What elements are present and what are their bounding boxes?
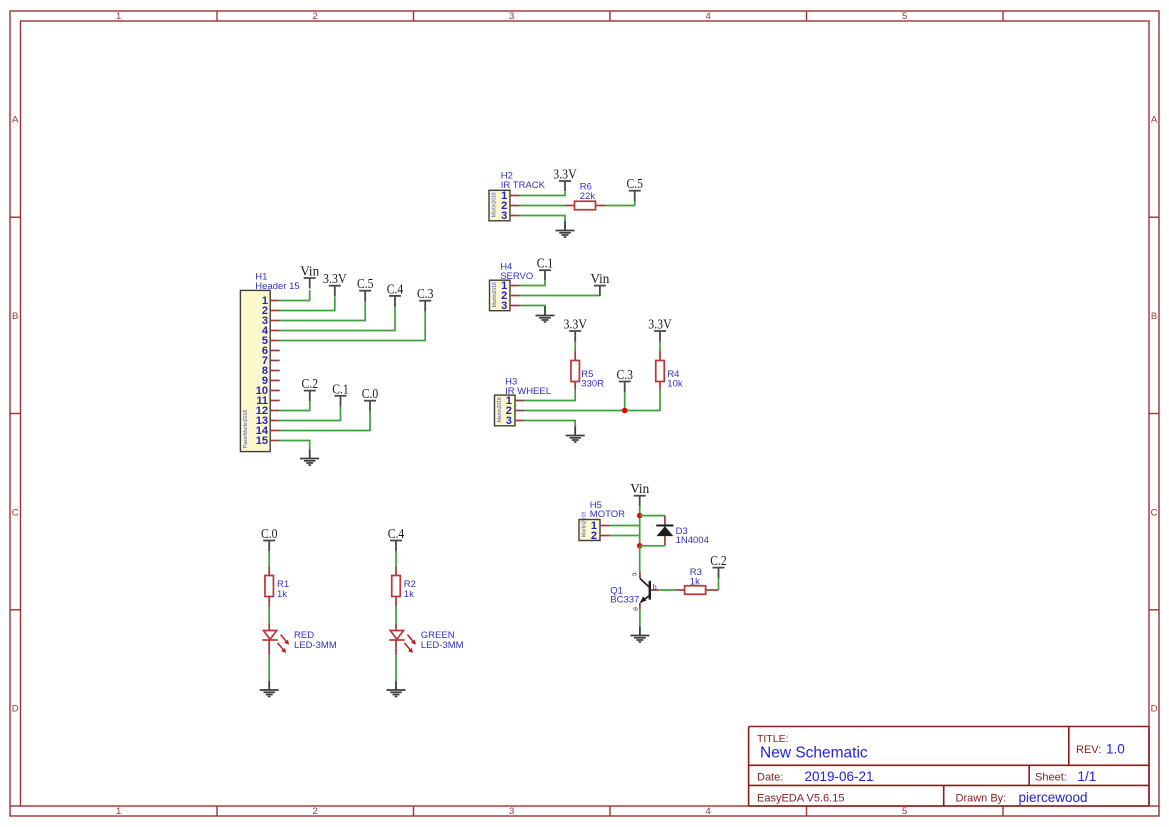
- svg-text:A: A: [12, 115, 19, 126]
- svg-text:C.5: C.5: [626, 176, 643, 191]
- wire H1 pin12 to C.2 flag: [280, 401, 310, 411]
- H5 pin 1 stub: [600, 525, 610, 527]
- resistor R1 bottom lead: [268, 597, 270, 607]
- LED LED2 bottom lead: [395, 640, 397, 655]
- wire R4 to H3 pin2: [524, 390, 660, 411]
- junction upper motor node: [637, 513, 643, 519]
- H3 pin 1 stub: [515, 400, 525, 402]
- svg-text:C.0: C.0: [261, 526, 278, 541]
- wire Vin vertical to motor node: [639, 506, 641, 546]
- connector H2 body: [489, 190, 510, 221]
- H4 pin 1 stub: [510, 285, 520, 287]
- svg-text:2: 2: [313, 11, 318, 22]
- svg-text:Martin2018: Martin2018: [491, 192, 497, 217]
- svg-text:5: 5: [902, 11, 907, 22]
- resistor R4 top lead: [659, 351, 661, 361]
- H1 pin 4 stub: [270, 330, 280, 332]
- svg-text:3: 3: [501, 210, 507, 222]
- wire H4 pin2 to Vin flag: [520, 295, 600, 297]
- LED LED2 GREEN: [389, 631, 416, 654]
- wire H3 pin3 to ground: [524, 421, 575, 427]
- svg-text:D: D: [1151, 704, 1158, 715]
- svg-text:MOTOR: MOTOR: [590, 509, 625, 520]
- H1 pin 15 stub: [270, 440, 280, 442]
- svg-text:3: 3: [509, 11, 514, 22]
- resistor R3 body: [685, 586, 706, 595]
- svg-text:B: B: [12, 311, 18, 322]
- wire H2 pin2 to R6: [520, 205, 566, 207]
- svg-text:C: C: [12, 507, 19, 518]
- svg-text:Sheet:: Sheet:: [1035, 772, 1067, 784]
- svg-text:5: 5: [902, 806, 907, 817]
- LED LED2 GREEN top lead: [395, 624, 397, 631]
- connector H5 body: [579, 520, 600, 541]
- svg-text:piercewood: piercewood: [1019, 790, 1088, 805]
- svg-text:Martin2018: Martin2018: [581, 512, 587, 537]
- wire upper node to D3 cathode: [640, 515, 665, 517]
- wire R1 to LED1: [268, 607, 270, 624]
- svg-text:2019-06-21: 2019-06-21: [805, 769, 874, 784]
- H1 pin 1 stub: [270, 300, 280, 302]
- svg-text:22k: 22k: [580, 191, 596, 202]
- wire H1 pin2 to 3.3V flag: [280, 297, 335, 311]
- wire R2 to LED2: [395, 607, 397, 624]
- ground at H3 pin3: [566, 427, 585, 443]
- junction lower motor node: [637, 543, 643, 549]
- svg-text:3.3V: 3.3V: [563, 317, 587, 332]
- connector H3 body: [495, 395, 516, 426]
- svg-text:C.2: C.2: [302, 376, 319, 391]
- net flag C.5 at H1 pin3: [357, 276, 374, 301]
- svg-text:b: b: [653, 583, 657, 592]
- svg-text:1/1: 1/1: [1078, 769, 1097, 784]
- svg-text:3: 3: [509, 806, 514, 817]
- net flag C.0 at H1 pin14: [362, 386, 379, 411]
- svg-text:C.2: C.2: [710, 553, 727, 568]
- ground at H4 pin3: [536, 307, 555, 323]
- svg-text:C.5: C.5: [357, 276, 374, 291]
- wire 3.3V to R5: [574, 342, 576, 352]
- H1 pin 12 stub: [270, 410, 280, 412]
- wire H1 pin5 to C.3 flag: [280, 311, 426, 341]
- diode D3 anode lead: [664, 536, 666, 546]
- ground at Q1 emitter: [630, 627, 649, 643]
- svg-text:C.1: C.1: [332, 381, 349, 396]
- svg-text:3.3V: 3.3V: [323, 271, 347, 286]
- ruler ticks left: [10, 217, 21, 806]
- wire H1 pin13 to C.1 flag: [280, 406, 341, 421]
- title block outline: [749, 727, 1149, 807]
- wire H1 pin3 to C.5 flag: [280, 301, 366, 321]
- svg-text:PaxerMartin2018: PaxerMartin2018: [243, 410, 249, 448]
- net flag C.1 at H4 pin1: [537, 256, 554, 281]
- svg-text:A: A: [1151, 115, 1158, 126]
- svg-text:New Schematic: New Schematic: [760, 745, 868, 762]
- svg-text:1N4004: 1N4004: [676, 535, 709, 546]
- net flag C.1 at H1 pin13: [332, 381, 349, 406]
- svg-text:10k: 10k: [667, 379, 683, 390]
- resistor R2 bottom lead: [395, 597, 397, 607]
- power flag Vin at H4 pin2: [590, 271, 609, 296]
- wire H2 pin3 to ground: [520, 216, 566, 223]
- svg-text:Vin: Vin: [300, 264, 319, 279]
- H1 pin 5 stub: [270, 340, 280, 342]
- wire R5 to H3 pin1: [524, 390, 575, 401]
- resistor R2 body: [392, 576, 401, 597]
- wire H2 pin1 to 3.3V flag: [520, 192, 566, 196]
- H1 pin 7 stub: [270, 360, 280, 362]
- LED LED1 bottom lead: [268, 640, 270, 655]
- wire C.0 to R1: [268, 551, 270, 567]
- net flag C.0 at R1: [261, 526, 278, 551]
- wire H5 pin2 to vertical: [610, 535, 640, 537]
- ruler letters right: [1151, 115, 1158, 715]
- net flag C.2 at H1 pin12: [302, 376, 319, 401]
- resistor R6 body: [575, 201, 596, 210]
- H1 pin 8 stub: [270, 370, 280, 372]
- H1 pin 11 stub: [270, 400, 280, 402]
- resistor R3 left lead: [676, 589, 684, 591]
- net flag C.2 at R3: [710, 553, 727, 578]
- H1 pin 13 stub: [270, 420, 280, 422]
- svg-text:3.3V: 3.3V: [648, 317, 672, 332]
- svg-text:LED-3MM: LED-3MM: [421, 640, 464, 651]
- resistor R3 right lead: [706, 589, 719, 591]
- diode D3: [656, 526, 673, 537]
- H1 pin 9 stub: [270, 380, 280, 382]
- svg-text:1: 1: [116, 806, 121, 817]
- svg-text:C.3: C.3: [616, 367, 633, 382]
- resistor R2 top lead: [395, 567, 397, 576]
- wire R6 to C.5 flag: [605, 201, 635, 206]
- svg-text:1k: 1k: [690, 577, 700, 588]
- svg-text:Date:: Date:: [757, 772, 783, 784]
- svg-text:4: 4: [706, 11, 711, 22]
- power flag Vin at H1 pin1: [300, 264, 319, 289]
- svg-text:1k: 1k: [404, 589, 414, 600]
- ground at LED1: [260, 681, 279, 697]
- svg-text:Drawn By:: Drawn By:: [956, 792, 1007, 804]
- net flag C.4 at H1 pin4: [387, 281, 404, 306]
- svg-text:D: D: [12, 704, 19, 715]
- H2 pin 2 stub: [510, 205, 520, 207]
- resistor R1 top lead: [268, 567, 270, 576]
- ruler ticks top: [217, 11, 1003, 21]
- H3 pin 2 stub: [515, 410, 525, 412]
- wire C.4 to R2: [395, 551, 397, 567]
- H4 pin 2 stub: [510, 295, 520, 297]
- wire lower node to Q1 collector: [639, 546, 641, 571]
- H1 pin 10 stub: [270, 390, 280, 392]
- wire H1 pin14 to C.0 flag: [280, 411, 370, 431]
- H5 pin 2 stub: [600, 535, 610, 537]
- wire D3 anode to lower node: [640, 545, 665, 547]
- svg-text:1.0: 1.0: [1106, 742, 1125, 757]
- svg-text:C.4: C.4: [388, 526, 405, 541]
- svg-text:2: 2: [591, 530, 597, 542]
- LED LED1 RED: [262, 631, 289, 654]
- resistor R4 body: [656, 361, 665, 382]
- resistor R5 bottom lead: [574, 382, 576, 390]
- H1 pin 3 stub: [270, 320, 280, 322]
- ground at H2 pin3: [556, 222, 575, 238]
- svg-text:C.4: C.4: [387, 281, 404, 296]
- wire LED2 to ground: [395, 655, 397, 681]
- svg-text:1k: 1k: [277, 589, 287, 600]
- svg-text:B: B: [1151, 311, 1157, 322]
- svg-text:Vin: Vin: [590, 271, 609, 286]
- svg-text:TITLE:: TITLE:: [757, 733, 789, 745]
- resistor R5 body: [571, 361, 580, 382]
- H1 pin 6 stub: [270, 350, 280, 352]
- H2 pin 3 stub: [510, 215, 520, 217]
- H1 pin 2 stub: [270, 310, 280, 312]
- svg-text:2: 2: [313, 806, 318, 817]
- svg-text:c: c: [631, 573, 640, 577]
- resistor R1 body: [265, 576, 274, 597]
- net flag C.3 at H1 pin5: [417, 286, 434, 311]
- ground at H1 pin15: [300, 450, 319, 466]
- ruler ticks bottom: [217, 806, 1003, 816]
- wire H1 pin15 to ground: [280, 441, 310, 450]
- wire H1 pin1 to Vin flag: [280, 290, 310, 301]
- ground at LED2: [387, 681, 406, 697]
- ruler numbers bottom: [116, 806, 907, 817]
- power flag 3.3V at H1 pin2: [323, 271, 347, 296]
- svg-text:3.3V: 3.3V: [553, 167, 577, 182]
- wire H4 pin1 to C.1 flag: [520, 281, 546, 286]
- wire 3.3V to R4: [659, 342, 661, 352]
- H1 pin 14 stub: [270, 430, 280, 432]
- wire Q1 emitter to ground: [639, 609, 641, 626]
- svg-text:1: 1: [116, 11, 121, 22]
- wire Q1 base to R3: [659, 589, 676, 591]
- svg-text:4: 4: [706, 806, 711, 817]
- net flag C.4 at R2: [388, 526, 405, 551]
- ruler numbers top: [116, 11, 907, 22]
- svg-text:C.1: C.1: [537, 256, 554, 271]
- power flag 3.3V at R5: [563, 317, 587, 342]
- net flag C.3 at H3 pin2: [616, 367, 633, 392]
- LED LED1 RED top lead: [268, 624, 270, 631]
- H3 pin 3 stub: [515, 420, 525, 422]
- H2 pin 1 stub: [510, 195, 520, 197]
- svg-text:Vin: Vin: [630, 481, 649, 496]
- wire H4 pin3 to ground: [520, 306, 546, 308]
- svg-text:EasyEDA V5.6.15: EasyEDA V5.6.15: [757, 792, 844, 804]
- power flag Vin at H5: [630, 481, 649, 506]
- svg-text:330R: 330R: [581, 379, 604, 390]
- svg-text:15: 15: [256, 435, 268, 447]
- svg-text:C.0: C.0: [362, 386, 379, 401]
- net flag C.5 at R6: [626, 176, 643, 201]
- svg-text:Martin2018: Martin2018: [492, 282, 498, 307]
- wire R3 to C.2: [718, 578, 720, 590]
- svg-text:C: C: [1151, 507, 1158, 518]
- power flag 3.3V at H2 pin1: [553, 167, 577, 192]
- svg-text:LED-3MM: LED-3MM: [294, 640, 337, 651]
- svg-text:Martin2018: Martin2018: [497, 397, 503, 422]
- connector H1 body: [240, 290, 270, 451]
- svg-text:BC337: BC337: [610, 595, 639, 606]
- H4 pin 3 stub: [510, 305, 520, 307]
- svg-text:3: 3: [501, 300, 507, 312]
- diode D3 cathode lead: [664, 516, 666, 525]
- resistor R4 bottom lead: [659, 382, 661, 390]
- wire LED1 to ground: [268, 655, 270, 681]
- junction at C.3 / H3 pin2: [622, 408, 628, 414]
- svg-text:3: 3: [506, 415, 512, 427]
- transistor Q1: [640, 571, 659, 609]
- wire C.3 drop: [624, 392, 626, 411]
- svg-text:IR TRACK: IR TRACK: [501, 180, 546, 191]
- wire H5 pin1 to vertical: [610, 525, 640, 527]
- resistor R5 top lead: [574, 351, 576, 361]
- connector H4 body: [490, 280, 511, 311]
- ruler letters left: [12, 115, 19, 715]
- power flag 3.3V at R4: [648, 317, 672, 342]
- svg-text:C.3: C.3: [417, 286, 434, 301]
- svg-text:REV:: REV:: [1076, 744, 1101, 756]
- ruler ticks right: [1149, 217, 1159, 806]
- resistor R6 left lead: [565, 205, 575, 207]
- resistor R6 right lead: [596, 205, 606, 207]
- wire H1 pin4 to C.4 flag: [280, 306, 395, 331]
